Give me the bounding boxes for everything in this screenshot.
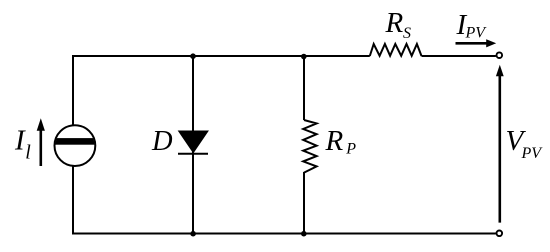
svg-text:PV: PV (465, 25, 488, 42)
diode D cathode bar (178, 153, 208, 155)
junction dot bottom Rp (301, 231, 307, 237)
svg-text:PV: PV (521, 145, 544, 162)
terminal bottom (497, 231, 503, 237)
wire left lower (72, 166, 74, 235)
diode D triangle (179, 131, 208, 153)
arrow V_PV (498, 75, 501, 223)
wire bottom (73, 233, 496, 235)
svg-text:R: R (385, 7, 404, 39)
resistor Rp zigzag (303, 120, 316, 173)
wire diode branch (192, 56, 194, 234)
svg-text:D: D (151, 126, 173, 157)
resistor Rs zigzag (370, 44, 422, 56)
junction dot top diode (190, 53, 196, 59)
wire left upper (72, 55, 74, 125)
terminal top (497, 52, 503, 58)
svg-text:R: R (325, 125, 344, 157)
svg-text:l: l (25, 142, 31, 164)
junction dot bottom diode (190, 231, 196, 237)
wire Rp branch lower (303, 172, 305, 234)
current source I_l circle (55, 125, 96, 166)
arrow I_PV (456, 42, 488, 45)
svg-text:I: I (14, 125, 26, 157)
wire top (73, 55, 370, 57)
svg-text:P: P (345, 141, 356, 158)
wire Rp branch upper (303, 56, 305, 120)
svg-text:S: S (403, 25, 411, 42)
junction dot top Rp (301, 54, 307, 60)
arrow I_l (39, 129, 42, 167)
wire top-right (after Rs) (422, 55, 496, 57)
